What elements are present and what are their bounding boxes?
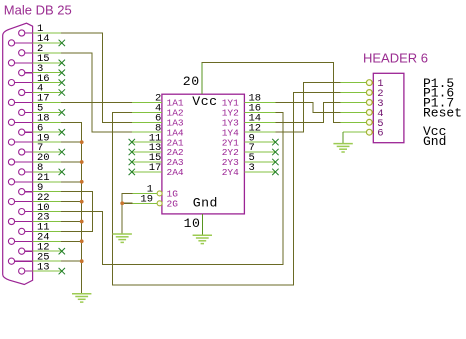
wire J1.19 to ground bus xyxy=(61,141,81,143)
no-connect X on J1 pin 8 xyxy=(59,169,65,175)
wire net U1 1G/2G to ground xyxy=(122,193,132,234)
ground symbol at J2.6 xyxy=(333,143,352,145)
U1 pin 3 2Y4 xyxy=(244,171,275,173)
J2 pin 3 xyxy=(340,101,366,103)
junction on ground bus at J1.24 xyxy=(80,239,84,243)
J1 pin 3 xyxy=(19,70,25,76)
U1 pin 4 1A2 xyxy=(132,111,162,113)
U1 pin 17 2A4 xyxy=(132,171,162,173)
wire net U1 1Y4 to J2.1 P1.5 xyxy=(275,83,340,133)
svg-text:2G: 2G xyxy=(167,199,179,210)
J1 pin 12 xyxy=(19,248,25,254)
svg-text:HEADER 6: HEADER 6 xyxy=(363,51,428,66)
no-connect X on J1 pin 14 xyxy=(59,40,65,46)
U1 pin 1 1G (active-low enable) xyxy=(157,191,162,196)
wire J1.23 to ground bus xyxy=(61,221,81,223)
wire J1.20 to ground bus xyxy=(61,161,81,163)
wire net J1.2 to U1 1A4 xyxy=(61,53,132,132)
U1 pin 20 Vcc stub xyxy=(201,63,203,94)
ground symbol at U1 pin 10 xyxy=(193,234,212,236)
J1 pin 24 xyxy=(8,238,14,244)
U1 pin 6 1A3 xyxy=(132,121,162,123)
svg-text:6: 6 xyxy=(377,128,383,140)
wire J1.22 to ground bus xyxy=(61,201,81,203)
U1 pin 2 1A1 xyxy=(132,101,162,103)
J1 pin 14 xyxy=(8,40,14,46)
J1 pin 4 xyxy=(19,89,25,95)
U1 pin 11 2A1 xyxy=(132,141,162,143)
junction on ground bus at J1.20 xyxy=(80,160,84,164)
J2 pin 1 xyxy=(340,82,366,84)
U1 pin 15 2A3 xyxy=(132,161,162,163)
svg-text:13: 13 xyxy=(37,261,50,273)
wire net U1 1Y3 to J2.3 P1.7 xyxy=(275,102,340,122)
no-connect X on U1 pin 5 xyxy=(272,159,278,165)
U1 pin 5 2Y3 xyxy=(244,161,275,163)
wire ground bus from J1.18 xyxy=(61,122,81,293)
no-connect X on J1 pin 6 xyxy=(59,129,65,135)
J1 pin 15 xyxy=(8,60,14,66)
J1 pin 2 xyxy=(19,50,25,56)
op-amp-style IC U1 74HC244 body xyxy=(162,94,245,214)
no-connect X on U1 pin 13 xyxy=(129,149,135,155)
no-connect X on U1 pin 9 xyxy=(272,139,278,145)
wire J1.24 to ground bus xyxy=(61,240,81,242)
no-connect X on J1 pin 13 xyxy=(59,268,65,274)
wire net J2.2 P1.6 to U1 1A2 xyxy=(113,93,341,285)
svg-text:Reset: Reset xyxy=(423,106,462,121)
wire net U1 1Y1 to J2.4 Reset xyxy=(275,102,340,112)
U1 pin 8 1A4 xyxy=(132,131,162,133)
svg-text:19: 19 xyxy=(140,194,153,206)
J1 pin 6 xyxy=(19,129,25,135)
no-connect X on J1 pin 12 xyxy=(59,248,65,254)
svg-text:Vcc: Vcc xyxy=(192,94,217,109)
junction on ground bus at J1.23 xyxy=(80,220,84,224)
connector J1 Male DB25 body xyxy=(3,23,33,284)
J1 pin 16 xyxy=(8,80,14,86)
no-connect X on U1 pin 15 xyxy=(129,159,135,165)
no-connect X on J1 pin 4 xyxy=(59,89,65,95)
J1 pin 17 xyxy=(8,99,14,105)
no-connect X on J1 pin 15 xyxy=(59,60,65,66)
J1 pin 23 xyxy=(8,218,14,224)
J1 pin 19 xyxy=(8,139,14,145)
U1 pin 13 2A2 xyxy=(132,151,162,153)
no-connect X on U1 pin 3 xyxy=(272,169,278,175)
no-connect X on U1 pin 7 xyxy=(272,149,278,155)
junction at U1 2G ground tie xyxy=(120,201,124,205)
wire net J1.17 to U1 1A1 xyxy=(61,101,132,103)
junction on ground bus at J1.25 xyxy=(80,259,84,263)
J1 pin 1 xyxy=(19,30,25,36)
wire net U1 1Y2 to J1.10 xyxy=(61,112,283,264)
junction on ground bus at J1.19 xyxy=(80,140,84,144)
wire net J1.1 to U1 1A3 xyxy=(61,33,132,122)
U1 pin 16 1Y2 xyxy=(244,111,275,113)
svg-text:Gnd: Gnd xyxy=(193,195,218,210)
J1 pin 11 xyxy=(19,228,25,234)
svg-text:Gnd: Gnd xyxy=(423,134,446,149)
wire net Vcc U1.20 to J2.5 xyxy=(202,63,340,123)
U1 pin 14 1Y3 xyxy=(244,121,275,123)
J1 pin 10 xyxy=(19,209,25,215)
no-connect X on J1 pin 3 xyxy=(59,70,65,76)
U1 pin 12 1Y4 xyxy=(244,131,275,133)
ground symbol at ground bus xyxy=(72,293,91,295)
wire J1.25 to ground bus xyxy=(61,260,81,262)
U1 pin 9 2Y1 xyxy=(244,141,275,143)
svg-text:2A4: 2A4 xyxy=(167,167,184,178)
svg-text:Male DB 25: Male DB 25 xyxy=(4,3,72,18)
J2 pin 2 xyxy=(340,92,366,94)
J1 pin 21 xyxy=(8,179,14,185)
wire J2.6 to ground xyxy=(342,132,344,143)
junction on ground bus at J1.22 xyxy=(80,200,84,204)
J2 pin 6 xyxy=(343,131,366,133)
junction on ground bus at J1.21 xyxy=(80,180,84,184)
wire J1.21 to ground bus xyxy=(61,181,81,183)
ground symbol at U1 1G/2G xyxy=(113,233,132,235)
no-connect X on J1 pin 16 xyxy=(59,79,65,85)
J1 pin 8 xyxy=(19,169,25,175)
svg-text:2Y4: 2Y4 xyxy=(222,167,239,178)
U1 pin 10 Gnd stub xyxy=(201,214,203,235)
wire net J1.9 to J1.11 xyxy=(61,192,92,232)
svg-text:3: 3 xyxy=(249,162,255,174)
J1 pin 13 xyxy=(19,268,25,274)
U1 pin 19 2G (active-low enable) xyxy=(157,201,162,206)
J1 pin 22 xyxy=(8,199,14,205)
svg-text:17: 17 xyxy=(149,162,162,174)
J1 pin 20 xyxy=(8,159,14,165)
no-connect X on J1 pin 5 xyxy=(59,109,65,115)
J1 pin 18 xyxy=(8,119,14,125)
J1 pin 7 xyxy=(19,149,25,155)
J2 pin 4 xyxy=(340,111,366,113)
svg-text:20: 20 xyxy=(183,74,200,89)
J1 pin 5 xyxy=(19,109,25,115)
U1 pin 18 1Y1 xyxy=(244,101,275,103)
J1 pin 9 xyxy=(19,189,25,195)
svg-text:10: 10 xyxy=(184,216,201,231)
J1 pin 25 xyxy=(8,258,14,264)
J2 pin 5 xyxy=(340,121,366,123)
connector J2 HEADER 6 body xyxy=(373,73,404,142)
no-connect X on U1 pin 17 xyxy=(129,169,135,175)
U1 pin 7 2Y2 xyxy=(244,151,275,153)
no-connect X on U1 pin 11 xyxy=(129,139,135,145)
no-connect X on J1 pin 7 xyxy=(59,149,65,155)
